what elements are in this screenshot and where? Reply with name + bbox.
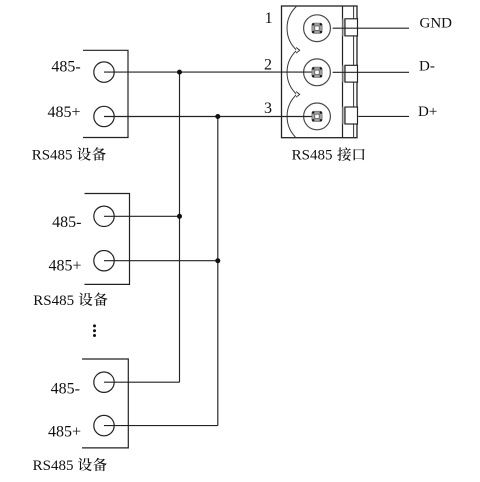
svg-text:485+: 485+ [47, 104, 80, 121]
junction node 2 [177, 214, 182, 219]
svg-text:485+: 485+ [48, 258, 81, 275]
ellipsis (more devices) [93, 324, 96, 337]
svg-text:RS485: RS485 [292, 148, 333, 164]
connector scalloped edge [287, 7, 297, 138]
svg-text:3: 3 [264, 100, 272, 117]
junction node 4 [215, 258, 220, 263]
wire D+ to label [358, 115, 409, 117]
connector clamp tab 2 [345, 65, 358, 82]
svg-text:RS485: RS485 [33, 458, 74, 474]
scallop cusp mark 2 [296, 92, 300, 98]
label RS485 device 2 [33, 293, 107, 309]
terminal screw 2 [312, 67, 322, 77]
device terminal circle 1+ [94, 106, 114, 126]
terminal screw 3 [312, 111, 322, 121]
svg-text:D+: D+ [418, 104, 437, 120]
junction node 3 [215, 114, 220, 119]
wire D+ main run (device1 485+ to terminal 3) [104, 116, 312, 118]
junction node 1 [177, 70, 182, 75]
wire device3 485+ stub [104, 425, 218, 427]
wire bus 485- vertical [179, 72, 181, 382]
connector U1 body (RS485 terminal block) [282, 6, 358, 138]
device 2 box (open left) [85, 194, 130, 285]
wire device3 485- stub [104, 381, 180, 383]
terminal circle 1 [304, 15, 331, 42]
terminal circle 2 [304, 59, 331, 86]
device terminal circle 3+ [94, 415, 114, 435]
svg-text:D-: D- [419, 59, 435, 75]
device 1 box (open left) [83, 50, 128, 137]
device 3 box (open left) [82, 359, 128, 448]
connector inner divider line [342, 6, 344, 138]
connector clamp tab 3 [345, 107, 358, 124]
connector strip inner line [353, 6, 355, 138]
device terminal circle 2+ [94, 251, 114, 271]
label RS485 interface [292, 147, 365, 163]
svg-text:2: 2 [264, 57, 272, 74]
wire D- to label [333, 71, 409, 73]
wire bus 485+ vertical [217, 117, 219, 426]
connector tab shading 3 [343, 107, 346, 124]
svg-text:RS485: RS485 [32, 148, 73, 164]
scallop cusp mark 1 [296, 48, 300, 54]
svg-text:RS485: RS485 [33, 293, 74, 309]
svg-text:485+: 485+ [48, 424, 81, 441]
connector tab shading 1 [343, 19, 346, 36]
svg-text:485-: 485- [51, 59, 80, 76]
svg-text:485-: 485- [52, 214, 81, 231]
terminal circle 3 [304, 103, 331, 130]
device terminal circle 1- [94, 62, 114, 82]
connector tab shading 2 [343, 65, 346, 82]
label RS485 device 1 [32, 147, 106, 163]
svg-text:1: 1 [265, 10, 273, 27]
wire D- main run (device1 485- to terminal 2) [104, 71, 312, 73]
wire GND to label [333, 27, 409, 29]
device terminal circle 3- [94, 372, 114, 392]
connector clamp tab 1 [345, 19, 358, 36]
svg-text:GND: GND [420, 15, 453, 31]
wire device2 485+ stub [104, 260, 218, 262]
device terminal circle 2- [94, 206, 114, 226]
label RS485 device 3 [33, 458, 107, 474]
wire device2 485- stub [104, 215, 180, 217]
svg-text:485-: 485- [51, 380, 80, 397]
terminal screw 1 [312, 23, 322, 33]
